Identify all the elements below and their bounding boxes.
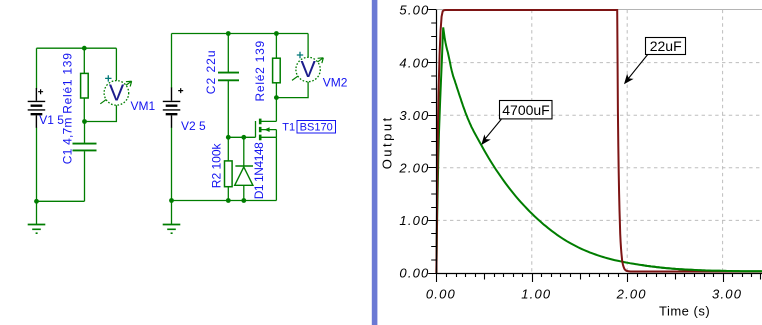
svg-text:1.00: 1.00 [521,286,551,301]
svg-text:Relé1 139: Relé1 139 [61,52,75,113]
svg-text:0.00: 0.00 [426,286,456,301]
svg-text:Relé2 139: Relé2 139 [253,40,267,101]
svg-text:C2 22u: C2 22u [204,49,218,94]
svg-text:3.00: 3.00 [399,108,429,123]
svg-text:V2 5: V2 5 [181,119,206,133]
svg-text:R2 100k: R2 100k [210,143,224,189]
svg-text:V: V [109,80,125,106]
svg-text:C1 4,7m: C1 4,7m [61,117,75,164]
svg-text:5.00: 5.00 [399,3,429,18]
svg-text:VM2: VM2 [323,76,348,90]
svg-text:2.00: 2.00 [398,161,429,176]
svg-text:2.00: 2.00 [616,286,647,301]
svg-text:BS170: BS170 [300,121,333,133]
svg-text:V: V [301,56,317,82]
svg-text:3.00: 3.00 [712,286,742,301]
svg-text:VM1: VM1 [131,99,156,113]
svg-text:T1: T1 [282,121,295,133]
svg-text:Output: Output [380,115,395,169]
svg-text:22uF: 22uF [650,38,682,54]
svg-text:Time (s): Time (s) [659,303,710,318]
svg-text:1.00: 1.00 [399,213,429,228]
svg-text:0.00: 0.00 [399,266,429,281]
svg-text:4700uF: 4700uF [502,102,549,118]
svg-text:4.00: 4.00 [399,55,429,70]
svg-text:D1 1N4148: D1 1N4148 [252,142,266,199]
